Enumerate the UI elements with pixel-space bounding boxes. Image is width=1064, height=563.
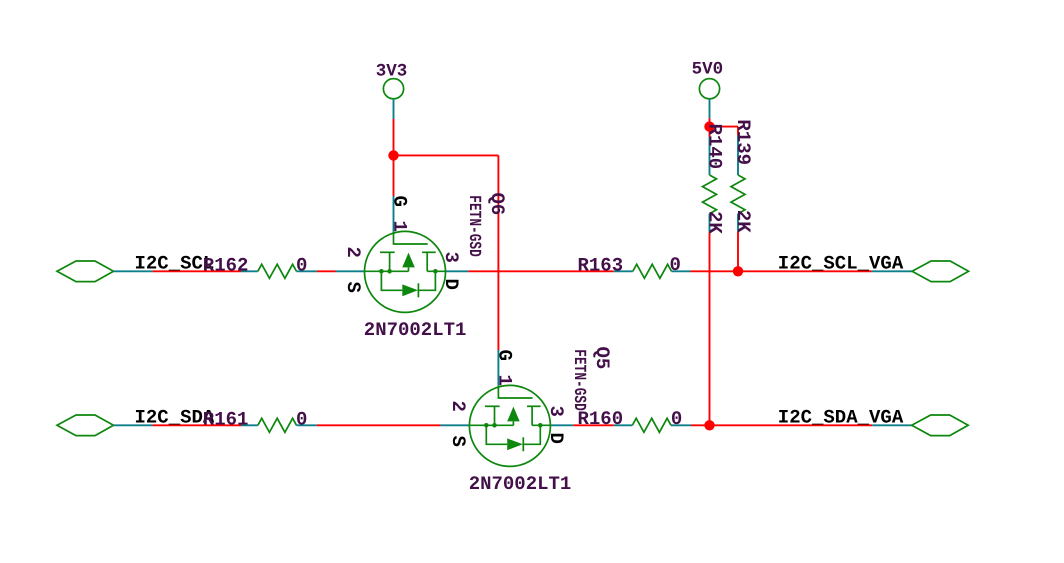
power symbol 5V0 circle [699,79,719,99]
wire I2C_SCL net [153,270,241,272]
resistor R162 pin 2 [297,270,317,272]
transistor Q6 body diode loop right [418,271,435,290]
svg-text:0: 0 [671,408,682,430]
transistor Q5 right plate stem [531,406,533,425]
svg-text:3: 3 [440,252,462,263]
wire gate rail vertical to Q5 gate [497,155,499,350]
transistor Q6 gate pin 1 [393,196,395,232]
resistor R139 pin 2 [737,214,739,232]
junction dot R140 / I2C_SDA_VGA [704,420,714,430]
wire R140 top stub [709,127,711,137]
transistor Q6 junction dot [379,269,384,274]
junction dot 5V0 node [704,121,714,131]
wire R163 to I2C_SCL_VGA port [691,270,872,272]
svg-text:0: 0 [296,254,307,276]
power 3V3 pin [393,99,395,119]
resistor R161 pin 2 [297,424,317,426]
transistor Q6 left plate stem [389,252,391,271]
port I2C_SDA [57,415,114,436]
wire 5V0 to junction [709,118,711,126]
svg-text:0: 0 [670,254,681,276]
svg-text:S: S [342,282,364,293]
svg-text:0: 0 [296,408,307,430]
wire 3V3 horizontal to gate rail [394,154,499,156]
svg-text:1: 1 [389,221,411,232]
transistor Q5 left plate [485,405,500,407]
transistor Q5 drain channel line [532,424,550,426]
wire 5V0 jog to R139 [710,126,739,128]
svg-text:Q5: Q5 [591,347,613,370]
svg-text:3: 3 [545,406,567,417]
transistor Q6 body diode cathode bar [417,283,419,297]
transistor Q5 body circle [469,385,550,466]
transistor Q6 junction dot [433,269,438,274]
svg-text:Q6: Q6 [486,193,508,216]
transistor Q5 substrate arrow stem [512,421,514,425]
wire R139 top stub [737,127,739,136]
port I2C_SCL [57,261,114,282]
transistor Q6 substrate arrow [402,253,415,268]
transistor Q6 source pin 2 [336,270,365,272]
wire Q5 drain to R160 [573,424,614,426]
resistor R163 body [633,264,672,278]
junction dot 3V3 node [388,150,398,160]
wire R139 to SCL_VGA net [737,232,739,272]
transistor Q5 left plate stem [494,406,496,425]
svg-text:5V0: 5V0 [692,59,724,79]
svg-text:FETN-GSD: FETN-GSD [569,349,588,411]
transistor Q6 substrate arrow stem [408,267,410,271]
transistor Q6 source channel line [365,270,409,272]
transistor Q6 body diode loop left [381,271,402,290]
port I2C_SCL_VGA [912,261,969,282]
svg-text:2K: 2K [704,211,726,234]
transistor Q5 body diode cathode bar [522,437,524,451]
wire 3V3 vertical to junction [393,119,395,155]
transistor Q5 right plate [527,405,541,407]
wire R160 to I2C_SDA_VGA port [691,424,872,426]
wire Q6 drain to R163 [468,270,614,272]
port I2C_SCL_VGA pin [872,270,913,272]
transistor Q5 source channel line [469,424,513,426]
transistor Q6 body circle [365,231,446,312]
transistor Q5 junction dot [484,423,489,428]
svg-text:2K: 2K [732,210,754,233]
resistor R140 body [703,175,717,214]
resistor R140 pin 2 [709,214,711,233]
transistor Q6 drain pin 3 [446,270,469,272]
power symbol 3V3 circle [383,79,403,99]
port I2C_SDA pin [114,424,153,426]
svg-text:2N7002LT1: 2N7002LT1 [469,473,572,495]
resistor R161 body [258,418,297,432]
resistor R139 pin 1 [737,136,739,175]
port I2C_SDA_VGA [912,415,969,436]
transistor Q6 drain channel line [427,270,445,272]
transistor Q5 junction dot [538,423,543,428]
port I2C_SDA_VGA pin [872,424,912,426]
svg-text:R139: R139 [732,119,754,165]
resistor R163 pin 1 [614,270,633,272]
resistor R162 body [258,264,297,278]
transistor Q5 junction dot [492,423,497,428]
transistor Q6 left plate [380,251,395,253]
resistor R163 pin 2 [672,270,691,272]
svg-text:R140: R140 [704,124,726,170]
resistor R160 pin 2 [671,424,691,426]
resistor R139 body [731,175,745,214]
transistor Q5 body diode [507,438,523,450]
transistor Q5 body diode loop right [523,425,540,444]
transistor Q5 drain pin 3 [550,424,573,426]
wire 3V3 junction down to Q6 gate [393,155,395,196]
wire R140 to I2C_SDA_VGA net (crosses SCL) [709,232,711,425]
resistor R160 pin 1 [614,424,633,426]
resistor R161 pin 1 [241,424,258,426]
power 5V0 pin [709,99,711,118]
svg-text:S: S [447,436,469,447]
svg-text:D: D [440,279,462,290]
wire R161 to Q5 source [317,424,441,426]
resistor R140 pin 1 [709,137,711,175]
transistor Q5 source pin 2 [440,424,469,426]
junction dot R139 / I2C_SCL_VGA [733,266,743,276]
port I2C_SCL pin [114,270,153,272]
transistor Q6 body diode [402,284,418,296]
transistor Q5 gate lead [498,386,532,398]
svg-text:2: 2 [447,401,469,412]
transistor Q5 gate pin 1 [497,350,499,386]
wire R162 to Q6 source [317,270,336,272]
transistor Q6 right plate [422,251,436,253]
svg-text:FETN-GSD: FETN-GSD [464,195,483,256]
svg-text:G: G [389,196,411,207]
svg-text:1: 1 [493,375,515,386]
transistor Q5 substrate arrow [507,407,520,422]
svg-text:R163: R163 [578,254,624,276]
svg-text:R162: R162 [203,254,249,276]
transistor Q5 body diode loop left [486,425,507,444]
transistor Q6 gate lead [394,232,428,244]
svg-text:2: 2 [342,247,364,258]
resistor R160 body [632,418,671,432]
svg-text:2N7002LT1: 2N7002LT1 [364,319,467,341]
wire I2C_SDA net [153,424,241,426]
svg-text:D: D [545,433,567,444]
svg-text:R160: R160 [578,408,624,430]
transistor Q6 right plate stem [426,252,428,271]
transistor Q6 junction dot [387,269,392,274]
svg-text:G: G [493,350,515,361]
resistor R162 pin 1 [241,270,258,272]
svg-text:R161: R161 [203,408,249,430]
